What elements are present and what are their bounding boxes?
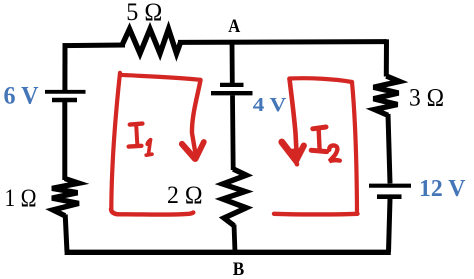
arrow I1 head xyxy=(182,144,195,159)
label I1 subscript 1 xyxy=(146,140,152,156)
wire left upper vertical xyxy=(62,43,67,90)
loop I1 left edge xyxy=(111,73,120,210)
resistor R1 5 ohm xyxy=(122,29,181,54)
wire middle upper vertical xyxy=(230,41,235,83)
loop I1 bottom edge xyxy=(111,209,193,215)
battery U2 4V short plate xyxy=(220,83,244,87)
loop I2 left edge / arrow I2 shaft xyxy=(290,79,297,148)
wire top-left segment xyxy=(63,43,126,49)
svg-text:B: B xyxy=(233,259,245,279)
label I1 stem xyxy=(136,125,137,145)
wire left middle vertical xyxy=(62,101,67,180)
arrow I2 head xyxy=(282,142,296,160)
label I2 stem xyxy=(319,128,320,150)
svg-text:2 Ω: 2 Ω xyxy=(167,182,203,209)
wire middle mid vertical xyxy=(230,95,235,170)
wire middle lower vertical xyxy=(234,225,235,253)
battery U3 12V short plate xyxy=(377,194,402,199)
label I1 top serif xyxy=(130,124,143,125)
loop I1 top edge xyxy=(120,75,201,80)
label I2 top serif xyxy=(313,127,326,129)
resistor R3 2 ohm xyxy=(223,169,247,226)
loop I2 bottom edge xyxy=(274,212,358,217)
svg-text:4 V: 4 V xyxy=(253,94,287,116)
svg-text:5 Ω: 5 Ω xyxy=(126,0,162,26)
svg-text:3 Ω: 3 Ω xyxy=(409,84,444,111)
label I1 bottom serif xyxy=(129,144,142,149)
label I2 subscript 2 xyxy=(329,145,340,161)
svg-text:1 Ω: 1 Ω xyxy=(5,185,37,212)
svg-text:6 V: 6 V xyxy=(4,82,39,109)
wire right upper vertical xyxy=(384,39,389,76)
wire bottom xyxy=(65,250,391,255)
loop I2 top edge xyxy=(289,78,352,82)
battery U2 4V long plate xyxy=(211,91,253,95)
wire right lower vertical xyxy=(389,199,391,252)
wire right middle vertical xyxy=(388,114,390,183)
wire left lower vertical xyxy=(65,215,67,253)
wire top-right segment xyxy=(178,39,387,45)
resistor R4 3 ohm xyxy=(374,76,400,115)
battery U3 12V long plate xyxy=(369,184,411,188)
resistor R2 1 ohm xyxy=(52,179,79,216)
loop I1 right edge / arrow I1 shaft xyxy=(192,80,201,153)
loop I2 right edge xyxy=(352,82,357,214)
label I2 bottom serif xyxy=(311,150,327,151)
battery U1 6V long plate xyxy=(45,90,86,94)
battery U1 6V short plate xyxy=(52,98,77,102)
svg-text:12 V: 12 V xyxy=(419,175,466,202)
svg-text:A: A xyxy=(228,16,240,37)
